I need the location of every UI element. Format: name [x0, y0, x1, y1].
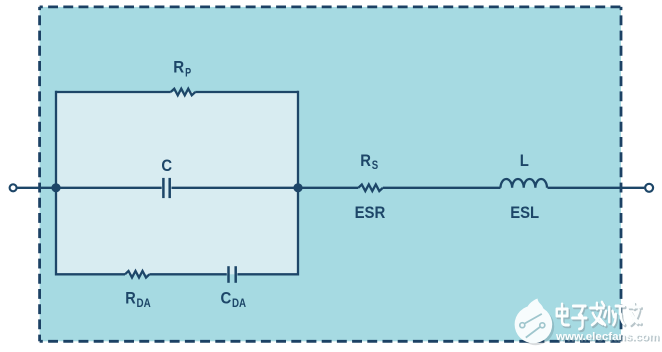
svg-text:www.elecfans.com: www.elecfans.com: [555, 331, 659, 343]
svg-text:P: P: [185, 67, 191, 79]
svg-text:R: R: [125, 288, 136, 307]
svg-text:R: R: [173, 58, 184, 77]
svg-text:S: S: [372, 160, 379, 172]
svg-text:DA: DA: [137, 298, 151, 310]
svg-text:DA: DA: [232, 298, 246, 310]
svg-text:R: R: [360, 151, 371, 170]
svg-text:C: C: [161, 156, 172, 175]
svg-text:ESR: ESR: [355, 203, 386, 222]
svg-text:C: C: [221, 289, 232, 308]
svg-text:ESL: ESL: [510, 203, 539, 222]
svg-text:L: L: [520, 151, 529, 170]
